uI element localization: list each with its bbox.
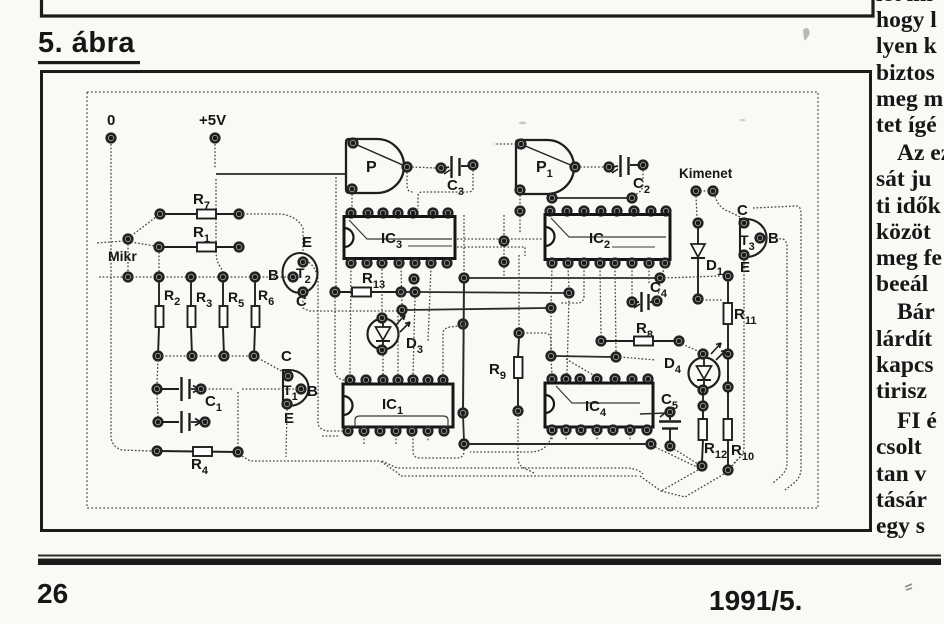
potentiometer P1 (516, 140, 574, 194)
smudge near P1 (518, 122, 527, 125)
D4 pads (699, 350, 708, 359)
resistor R1 (155, 243, 244, 252)
wire: P bottom pad to IC3 (351, 194, 353, 209)
P1 wiper line (523, 145, 573, 166)
wire: y278 bus to R11 top (664, 276, 720, 278)
wire: D1 bottom to R11 column (702, 299, 723, 301)
node pads x504 (500, 237, 509, 246)
node pad start of y444 bus (460, 440, 469, 449)
wire: extra columns IC3 to IC1 (350, 267, 431, 376)
wire: P wiper pad down stub (407, 172, 413, 192)
footer thin rule (38, 555, 941, 557)
wire: solid bus y356 (547, 352, 621, 362)
wire: Mikr stub left (96, 241, 124, 243)
D4 light arrows (711, 343, 726, 360)
wire: gap traces IC3 to IC2 (457, 239, 543, 256)
wire: IC4 right to C5 (solid) (640, 413, 666, 414)
wire: C4 right up to bus end (658, 283, 660, 297)
wire: IC1 bottom stub drops (364, 435, 428, 444)
D3 pads (378, 314, 387, 323)
capacitor C1 upper (153, 377, 206, 401)
node pad left of IC2 (516, 207, 525, 216)
IC4 top pads (548, 375, 653, 384)
main figure frame (42, 72, 871, 531)
node Mikr pad (124, 235, 133, 244)
wire: solid vertical x463 (463, 282, 464, 409)
wire: R8 right to LED D4 (682, 344, 700, 352)
node +5V pad (211, 134, 220, 143)
wire: T3 E down right side (733, 260, 744, 464)
wire: IC4 pin stubs to y444 bus (552, 434, 630, 441)
resistor R4 (153, 447, 243, 457)
wire: IC2 bend x584 (560, 296, 584, 303)
wire: R2 bottom down to C1 (157, 360, 158, 417)
wire: T1 E down to rail (286, 409, 287, 457)
wire: x504 down to R9 top (504, 255, 519, 329)
PCB dotted outline (87, 92, 818, 508)
heading underline (38, 61, 140, 64)
svg-text:B: B (268, 267, 279, 284)
wire: node stub down (519, 216, 521, 234)
wire: right of T2 down to IC1 (306, 260, 344, 431)
node row pad a (124, 273, 133, 282)
wire: row y277 (99, 276, 289, 278)
D3 light arrows (395, 315, 410, 332)
wire: Kimenet to D1 (696, 196, 697, 218)
resistor R13 (331, 288, 406, 297)
resistor R8 (597, 337, 684, 346)
resistor R11 (724, 272, 733, 359)
wire: P1 bottom to node (519, 195, 521, 206)
wire: D4 bottom link (702, 392, 704, 403)
LED D3 (368, 319, 399, 350)
wire: solid bus y278 (460, 274, 665, 283)
IC1 top pads (346, 376, 448, 385)
node pad end of y444 bus (647, 440, 656, 449)
svg-text:1991/5.: 1991/5. (709, 585, 802, 616)
resistor R7 (156, 210, 244, 219)
op-amp IC3 body (344, 217, 455, 259)
wire: x504 column (503, 215, 505, 257)
svg-text:0: 0 (107, 112, 115, 129)
wire: Mikr pad down to row (127, 244, 129, 272)
wire: P1 wiper to C2 (580, 166, 604, 168)
resistor R10 (724, 391, 733, 474)
wire: C1 to T1 base (205, 388, 297, 390)
wire: 0 rail down left side (111, 144, 151, 451)
op-amp IC2 body (545, 215, 670, 260)
node pads solid column x463 (459, 320, 468, 329)
wire: R6 bottom to T1 C (258, 358, 285, 373)
wire: diag to IC4 (566, 359, 595, 376)
wire: junction down to R4 right (237, 392, 239, 448)
footer thick rule (38, 559, 941, 566)
wire: outer right vertical (753, 206, 801, 490)
T2 pads E B C (299, 258, 308, 267)
wire: P wiper to C3 (412, 167, 436, 168)
wire: D3 bottom to IC1 (382, 355, 384, 375)
transistor T2 (283, 253, 318, 293)
wire: R7 right to T2 emitter (243, 214, 303, 257)
svg-text:B: B (307, 383, 318, 400)
wire: y293 pad down (567, 297, 569, 374)
wire: R9 top to right (523, 333, 551, 352)
node 0 pad (107, 134, 116, 143)
wire: bottom diagonals to rail (640, 470, 724, 497)
svg-text:Kimenet: Kimenet (679, 166, 733, 181)
wire: x463 short links (463, 415, 464, 441)
smudge top right (803, 28, 810, 40)
svg-text:26: 26 (37, 578, 68, 609)
wire: x318 to IC1 left lower (322, 435, 340, 437)
P1 pads (517, 140, 526, 149)
bottom edge of previous figure frame (42, 0, 874, 16)
node pad above R12 (699, 402, 708, 411)
wire: y308 pad column to IC4 (551, 360, 552, 375)
wire: rail A2 nested (382, 461, 643, 474)
wire: row y356 links (162, 355, 250, 357)
wire: IC2 pin drops (551, 267, 665, 352)
wire: R9 bottom down (518, 415, 534, 473)
Kimenet pads (692, 187, 701, 196)
svg-text:C: C (281, 348, 292, 365)
wire: Kimenet right to T3 C (715, 196, 740, 217)
wire: vertical gap trace x464 (463, 215, 465, 273)
IC2 bottom pads (548, 259, 670, 268)
capacitor C1 lower (154, 411, 210, 433)
capacitor C4 (628, 292, 662, 312)
resistor R3 (187, 273, 197, 361)
T3 pads C B E (740, 219, 749, 228)
svg-text:E: E (284, 410, 294, 427)
smudge top mid (739, 119, 746, 122)
svg-text:P: P (366, 159, 377, 176)
wire: T3 B to right vertical (765, 238, 787, 484)
IC1 bottom pads (344, 427, 449, 436)
resistor R2 (154, 273, 164, 361)
svg-text:5. ábra: 5. ábra (38, 27, 135, 59)
wire: R13 left pad down to IC1 (335, 297, 347, 380)
wire: P1 top stub (494, 143, 516, 145)
IC3 top pads (347, 209, 453, 218)
svg-text:E: E (302, 234, 312, 251)
svg-text:+5V: +5V (199, 112, 226, 129)
transistor T3 (740, 219, 767, 257)
wire: solid bus y292 (404, 291, 412, 293)
IC2 top pads (546, 207, 671, 216)
wire: C3 right down to IC3 (418, 170, 473, 209)
diode D1 (691, 219, 705, 304)
pencil mark (905, 584, 912, 590)
LED D4 (689, 358, 720, 389)
wire: between Kimenet pads (700, 190, 709, 192)
right text column (876, 0, 944, 539)
wire: R1 left pad down (158, 252, 160, 272)
wire: IC1 under curve (413, 435, 464, 458)
capacitor C3 (437, 156, 478, 178)
resistor R6 (250, 273, 260, 361)
capacitor C5 (659, 408, 681, 451)
capacitor C2 (605, 155, 648, 177)
wire: x398 IC1 pin up to bus (397, 315, 399, 375)
wire: R11 column continues (727, 358, 729, 383)
wire: IC4 bottom left drop (470, 434, 552, 452)
wire: vertical feed from +5V wire to R13 (335, 177, 337, 288)
resistor R5 (219, 273, 229, 361)
wire: diag C5 bottom to R12 bottom (674, 449, 698, 464)
wire: D3 top to IC3 (381, 267, 383, 314)
wire: solid link above IC2 (548, 194, 637, 203)
T1 pads C B E (284, 372, 293, 381)
wire: T2 C down to bus (303, 297, 398, 311)
op-amp IC1 body (343, 384, 453, 427)
node pad R10 top (724, 383, 733, 392)
P pads (349, 139, 358, 148)
svg-text:Mikr: Mikr (108, 248, 137, 264)
wire: solid bus y444 (468, 443, 647, 445)
op-amp IC4 body (545, 383, 653, 427)
IC3 bottom pads (347, 259, 452, 268)
wire: bottom rail A (242, 456, 637, 476)
wire: diag bus end to R12 bottom (655, 447, 697, 467)
svg-text:E: E (740, 259, 750, 276)
IC4 bottom pads (548, 426, 652, 435)
wire: y356 dotted continue (620, 357, 656, 360)
wire: x443 IC1 pin up (443, 326, 458, 375)
wire: +5V to P (solid) (216, 173, 346, 175)
wire: +5V vertical (214, 144, 216, 169)
wire: +5V down to R5 (216, 179, 223, 272)
node pad right of R13 (411, 288, 420, 297)
node pad on x413 column (410, 275, 419, 284)
wire: C2 right down to wire pad (634, 170, 643, 196)
node pad end of y292 bus (565, 289, 574, 298)
wire: Mikr to R7 left (131, 217, 156, 236)
svg-text:C: C (737, 202, 748, 219)
potentiometer P (346, 139, 404, 193)
wire: Mikr to R1 left (131, 242, 155, 246)
transistor T1 (283, 370, 309, 406)
resistor R9 (514, 329, 524, 416)
wire: solid bus y310 (398, 304, 556, 315)
wire: R10 bottom to E line (732, 456, 741, 466)
wire: x402 IC3 pin down (401, 267, 402, 306)
P wiper line (355, 144, 405, 166)
resistor R12 (698, 410, 707, 470)
